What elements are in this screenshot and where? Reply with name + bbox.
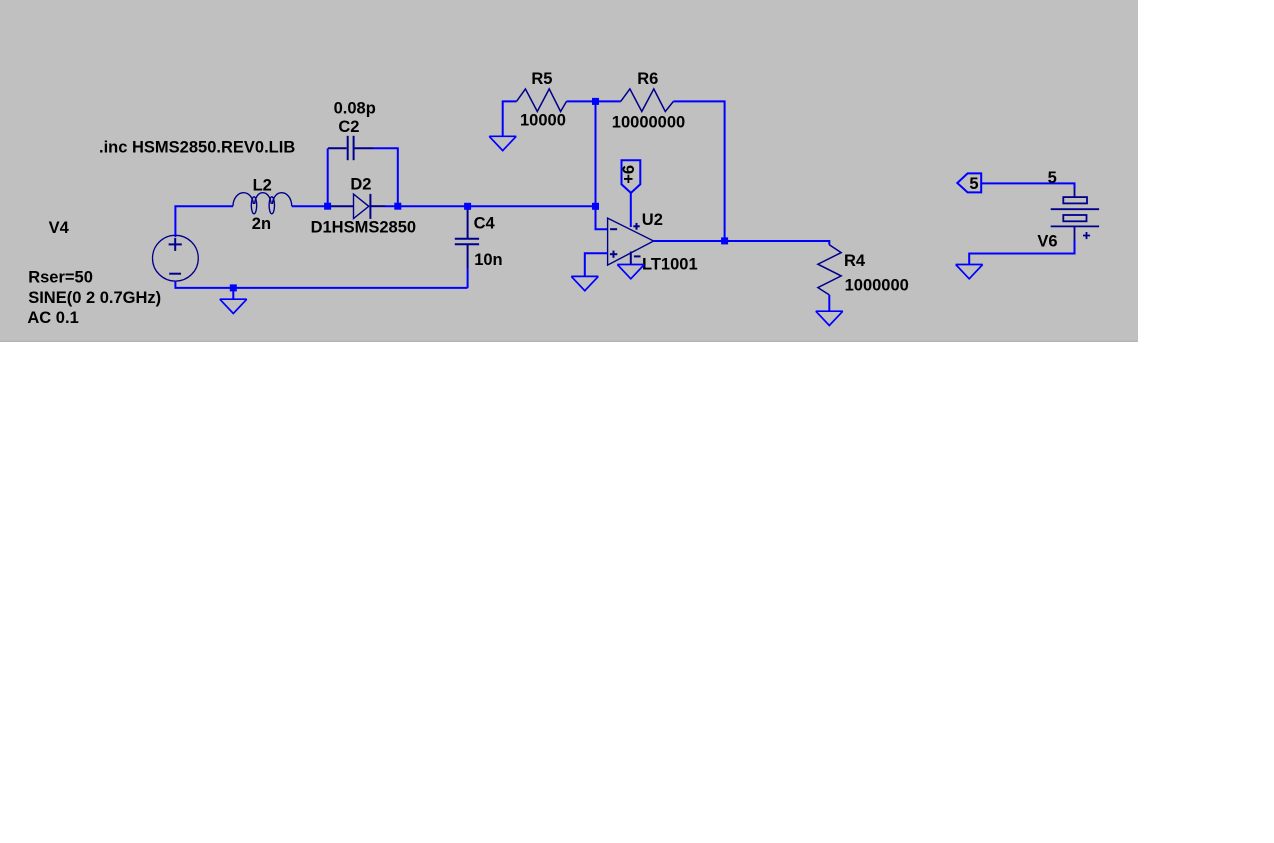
svg-text:R4: R4 bbox=[844, 252, 866, 270]
svg-text:LT1001: LT1001 bbox=[642, 255, 698, 273]
wire R6 to output bbox=[673, 101, 724, 241]
svg-text:5: 5 bbox=[969, 175, 978, 193]
ground (noninverting input) bbox=[571, 276, 598, 290]
resistor R6 bbox=[621, 89, 674, 112]
ground (negative supply) bbox=[617, 265, 644, 279]
wire battery to ground bbox=[969, 241, 1074, 265]
svg-text:R5: R5 bbox=[531, 70, 552, 88]
node junction bottom rail ground bbox=[230, 284, 237, 291]
wire port 5 to battery bbox=[981, 183, 1074, 188]
voltage source V4 bbox=[153, 235, 199, 281]
svg-text:R6: R6 bbox=[637, 70, 658, 88]
svg-text:10000: 10000 bbox=[520, 112, 566, 130]
node junction D2 cathode/C2 bbox=[394, 203, 401, 210]
svg-text:C4: C4 bbox=[474, 214, 496, 232]
svg-text:+6: +6 bbox=[620, 165, 638, 184]
wire D2 cathode to opamp node bbox=[385, 205, 596, 207]
svg-text:.inc HSMS2850.REV0.LIB: .inc HSMS2850.REV0.LIB bbox=[99, 139, 295, 157]
svg-text:V6: V6 bbox=[1037, 233, 1057, 251]
ground (R4) bbox=[816, 311, 843, 325]
node junction C4 top bbox=[464, 203, 471, 210]
wire ground stub V4 bbox=[232, 288, 234, 299]
svg-text:D1HSMS2850: D1HSMS2850 bbox=[311, 218, 416, 236]
resistor R5 bbox=[517, 89, 567, 112]
svg-text:5: 5 bbox=[1048, 169, 1057, 187]
svg-text:1000000: 1000000 bbox=[845, 277, 909, 295]
svg-text:L2: L2 bbox=[253, 176, 272, 194]
wire C2 right leg bbox=[373, 148, 398, 206]
svg-text:10000000: 10000000 bbox=[612, 113, 685, 131]
svg-text:SINE(0 2 0.7GHz): SINE(0 2 0.7GHz) bbox=[28, 289, 161, 307]
node junction L2/D2/C2 bbox=[324, 203, 331, 210]
wire bottom rail bbox=[175, 281, 467, 288]
wire V4 top to L2 bbox=[175, 206, 233, 237]
flag +6 bbox=[620, 160, 640, 193]
wire +6 to opamp supply bbox=[630, 193, 632, 227]
ground (V6) bbox=[956, 265, 983, 279]
wire output to R4 bbox=[654, 241, 830, 245]
resistor R4 bbox=[818, 245, 841, 295]
svg-text:U2: U2 bbox=[642, 211, 663, 229]
op-amp U2 bbox=[608, 218, 654, 265]
capacitor C4 bbox=[455, 206, 479, 268]
wire node to R6 bbox=[596, 100, 621, 102]
svg-text:C2: C2 bbox=[338, 118, 359, 136]
wire L2 to D2 anode node bbox=[292, 205, 328, 207]
wire feedback node down to inverting input bbox=[596, 101, 608, 229]
ground (R5) bbox=[489, 136, 516, 150]
wire negative supply bbox=[630, 252, 632, 265]
node junction inverting input bbox=[592, 203, 599, 210]
wire R5 to node bbox=[567, 100, 596, 102]
wire R5 left to ground bbox=[503, 101, 517, 135]
wire noninverting input bbox=[585, 253, 608, 276]
ground (source) bbox=[220, 299, 247, 313]
svg-text:10n: 10n bbox=[474, 251, 502, 269]
diode D2 bbox=[328, 194, 385, 219]
inductor L2 bbox=[233, 193, 292, 214]
node junction R5/R6 bbox=[592, 98, 599, 105]
svg-text:0.08p: 0.08p bbox=[334, 100, 376, 118]
wire R4 to ground bbox=[828, 295, 830, 311]
wire C4 bottom bbox=[467, 268, 469, 288]
capacitor C2 bbox=[328, 136, 373, 160]
node junction opamp output bbox=[721, 237, 728, 244]
svg-text:D2: D2 bbox=[350, 176, 371, 194]
svg-text:AC 0.1: AC 0.1 bbox=[27, 309, 78, 327]
port flag 5 bbox=[957, 173, 981, 193]
svg-text:V4: V4 bbox=[49, 219, 70, 237]
svg-text:Rser=50: Rser=50 bbox=[28, 269, 93, 287]
battery V6 bbox=[1051, 188, 1099, 241]
wire C2 left leg bbox=[327, 148, 329, 206]
svg-text:2n: 2n bbox=[252, 215, 271, 233]
